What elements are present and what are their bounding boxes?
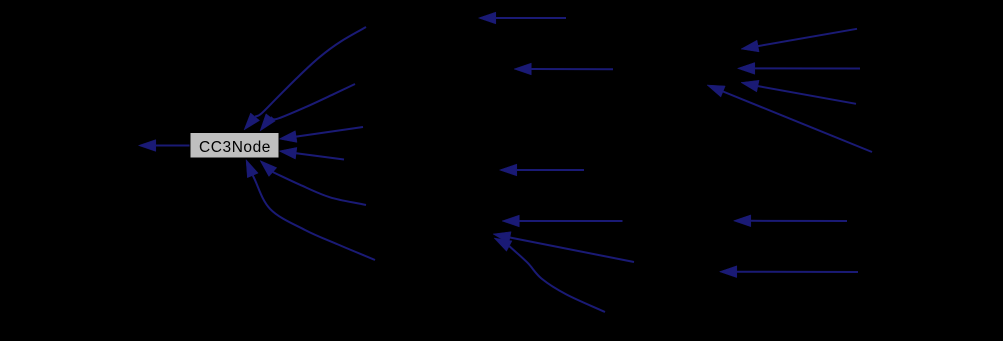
svg-text:CC3Node: CC3Node [199,139,271,156]
